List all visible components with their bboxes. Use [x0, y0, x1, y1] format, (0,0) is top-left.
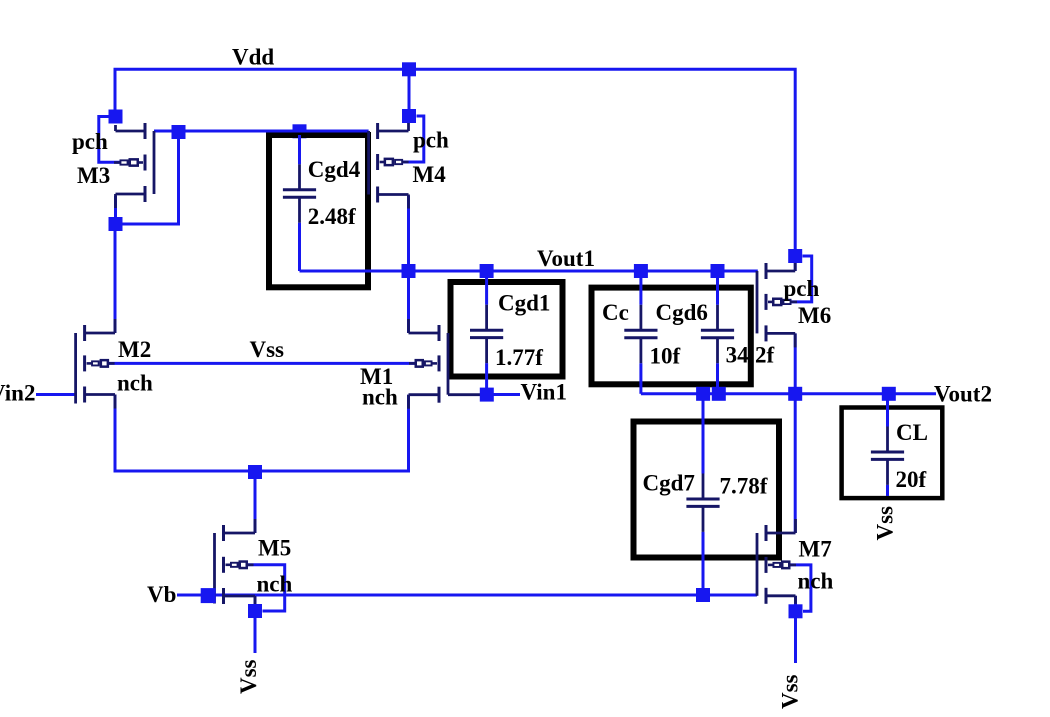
- svg-text:M4: M4: [413, 162, 447, 187]
- svg-text:CL: CL: [896, 420, 928, 445]
- svg-text:2.48f: 2.48f: [308, 204, 356, 229]
- svg-text:nch: nch: [798, 569, 834, 594]
- svg-text:7.78f: 7.78f: [720, 474, 768, 499]
- svg-text:M2: M2: [118, 337, 151, 362]
- svg-text:Cgd4: Cgd4: [308, 157, 361, 182]
- svg-text:Vdd: Vdd: [232, 44, 274, 69]
- svg-text:M5: M5: [258, 536, 291, 561]
- svg-text:Cgd1: Cgd1: [498, 291, 550, 316]
- svg-text:20f: 20f: [896, 467, 927, 492]
- svg-text:Cgd7: Cgd7: [643, 471, 695, 496]
- svg-text:Vss: Vss: [236, 659, 261, 694]
- svg-text:Vss: Vss: [250, 337, 285, 362]
- svg-text:pch: pch: [72, 129, 108, 154]
- svg-text:Cc: Cc: [602, 300, 629, 325]
- svg-text:10f: 10f: [650, 344, 681, 369]
- svg-text:2f: 2f: [755, 343, 775, 368]
- svg-text:Vb: Vb: [147, 582, 176, 607]
- svg-text:M3: M3: [77, 163, 110, 188]
- svg-text:Vout1: Vout1: [537, 246, 595, 271]
- svg-text:Vin1: Vin1: [521, 380, 567, 405]
- svg-text:pch: pch: [784, 276, 820, 301]
- svg-text:Cgd6: Cgd6: [656, 300, 708, 325]
- svg-text:nch: nch: [362, 385, 398, 410]
- svg-text:M6: M6: [798, 303, 831, 328]
- svg-text:nch: nch: [117, 371, 153, 396]
- svg-text:Vout2: Vout2: [934, 382, 992, 407]
- svg-text:1.77f: 1.77f: [495, 345, 543, 370]
- svg-text:34: 34: [726, 343, 750, 368]
- svg-text:Vin2: Vin2: [0, 381, 35, 406]
- svg-text:Vss: Vss: [872, 506, 897, 541]
- svg-text:pch: pch: [413, 128, 449, 153]
- svg-text:Vss: Vss: [778, 674, 803, 709]
- svg-text:nch: nch: [257, 572, 293, 597]
- svg-text:M7: M7: [799, 537, 832, 562]
